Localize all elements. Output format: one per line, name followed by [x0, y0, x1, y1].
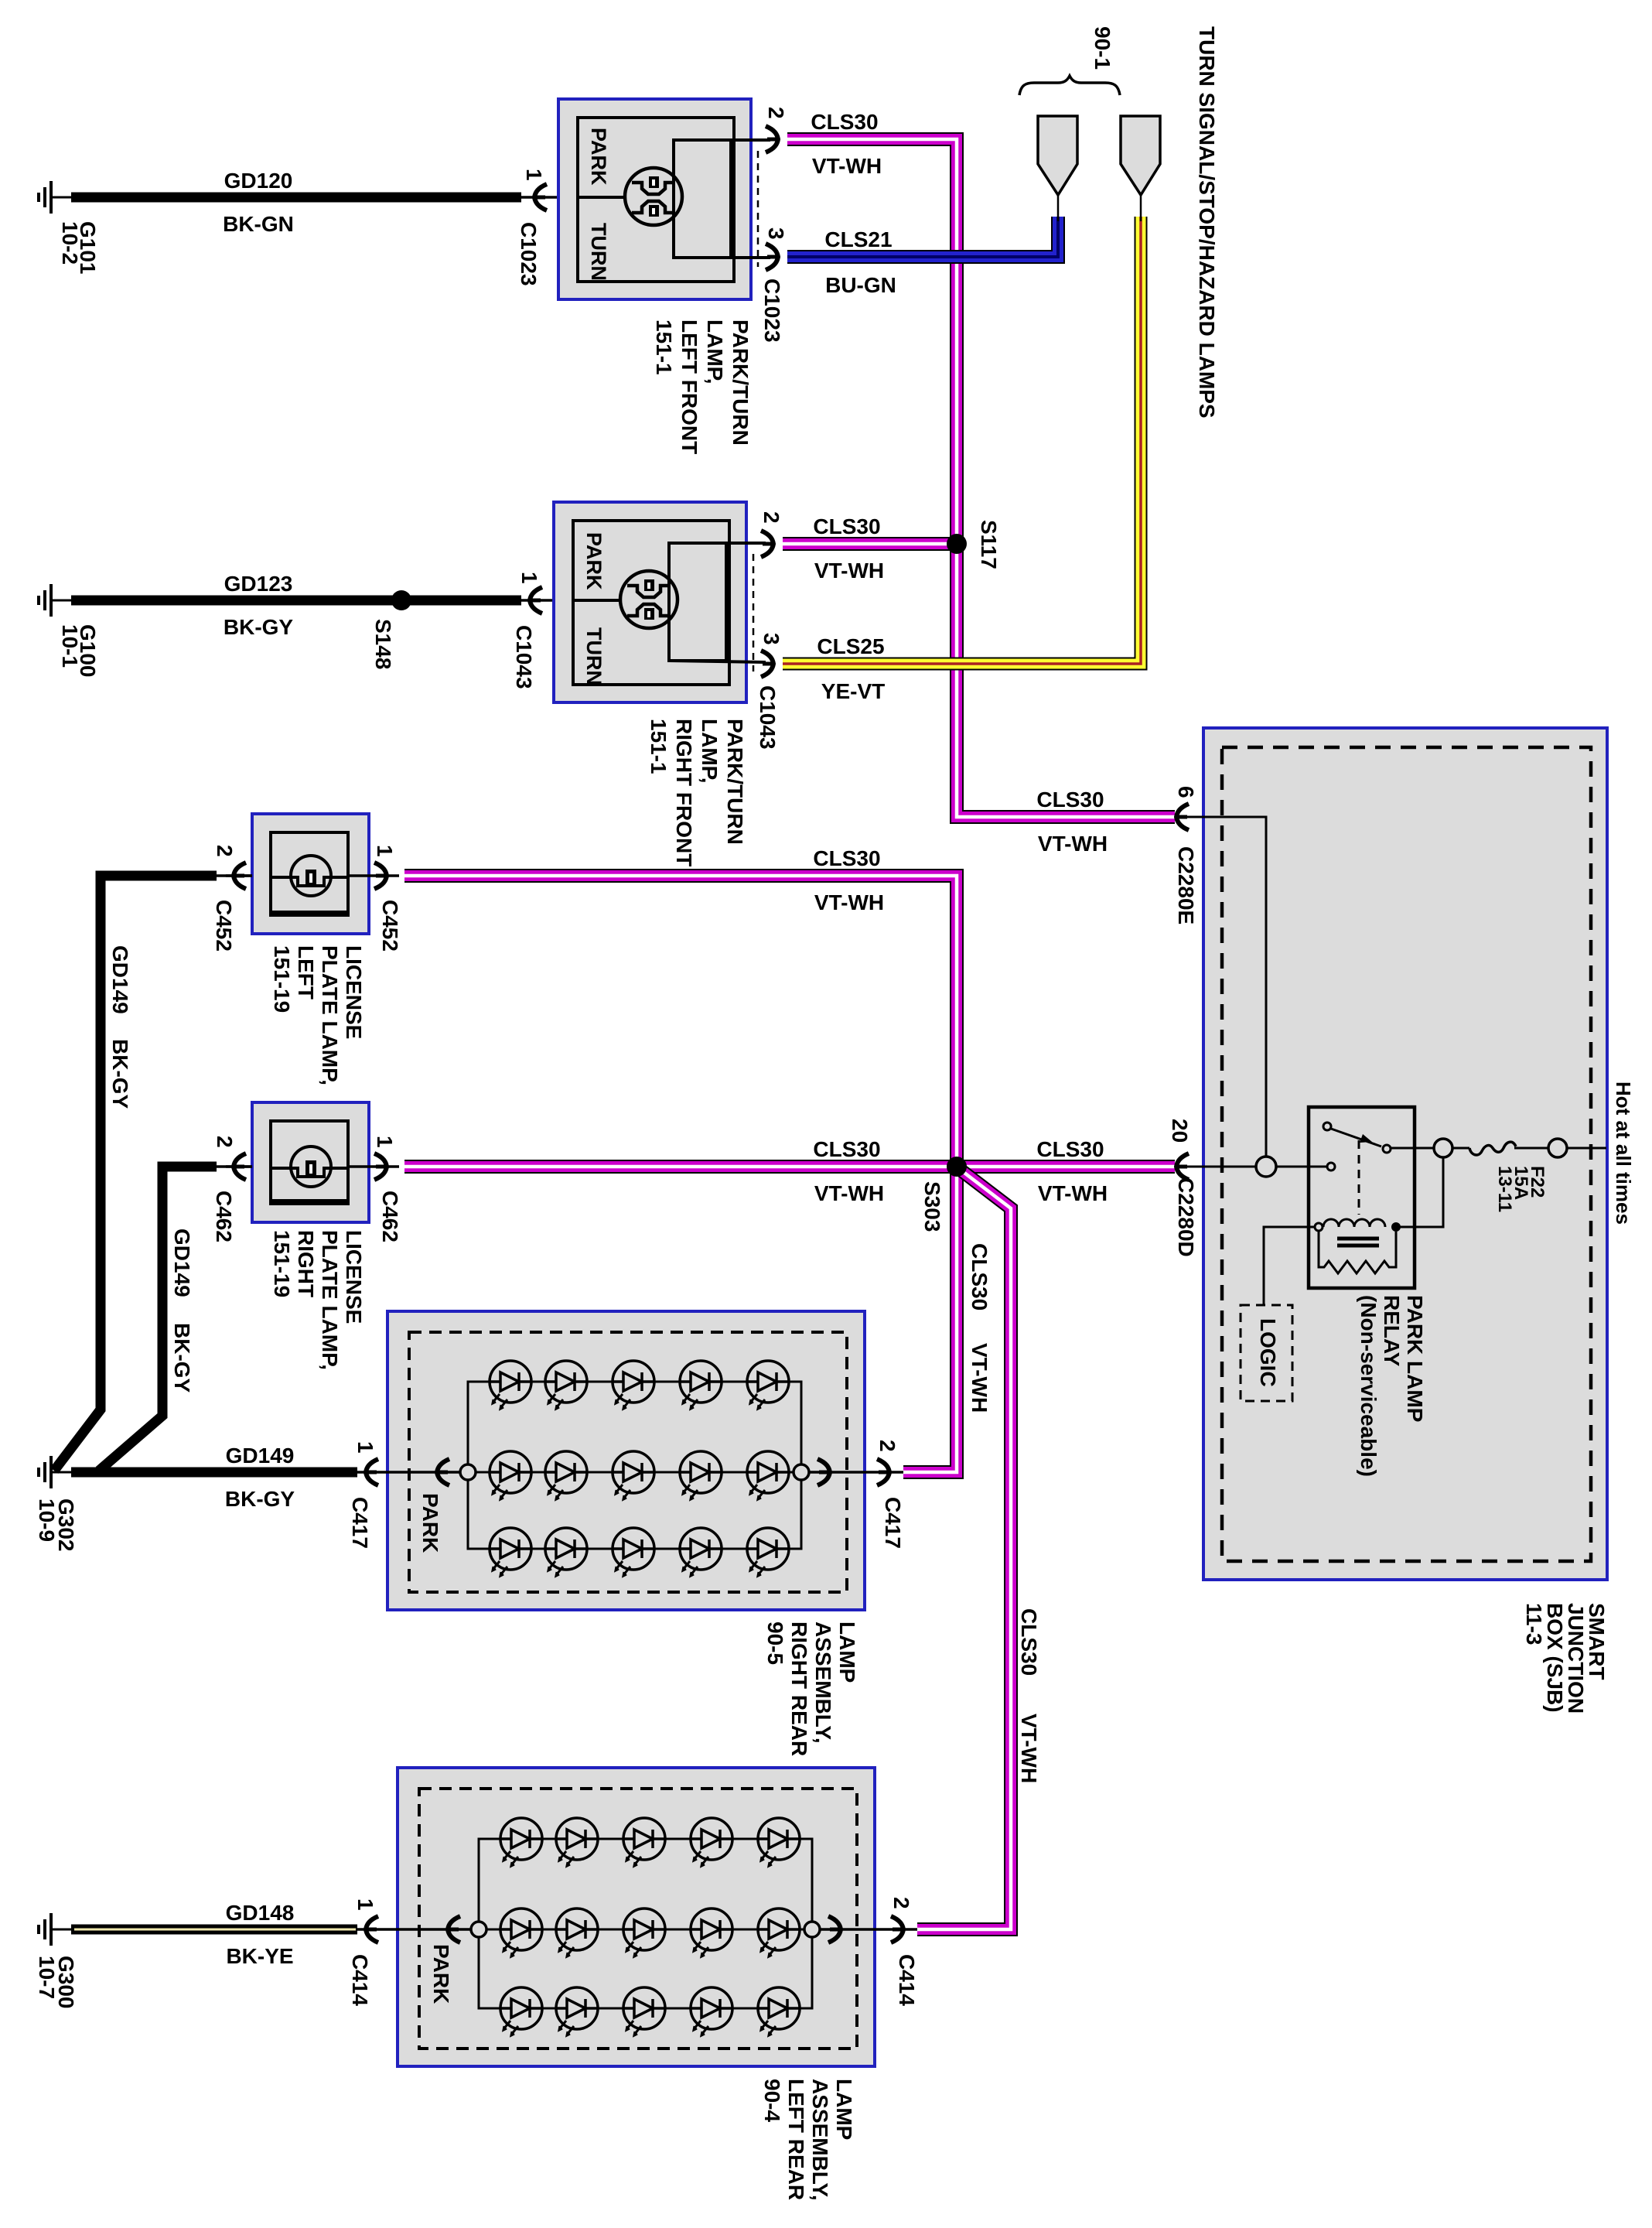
svg-text:VT-WH: VT-WH	[1038, 1181, 1108, 1205]
svg-text:PLATE LAMP,: PLATE LAMP,	[318, 945, 342, 1085]
wire CLS21 BU-GN from C1023 pin3 to turn-signal connector	[787, 217, 1058, 257]
svg-text:2: 2	[759, 511, 783, 524]
wire GD149 BK-GY from license left to ground G302	[54, 876, 217, 1471]
svg-text:151-1: 151-1	[647, 719, 671, 774]
svg-text:90-5: 90-5	[763, 1621, 787, 1665]
svg-text:CLS30: CLS30	[811, 110, 878, 134]
label LAMP ASSEMBLY, RIGHT REAR 90-5	[763, 1621, 859, 1756]
label VT-WH (S303 to C414 drop)	[1017, 1714, 1041, 1783]
svg-text:10-9: 10-9	[35, 1498, 59, 1542]
label G302 10-9	[54, 1498, 78, 1552]
label C452 (pin2)	[212, 900, 236, 952]
fuse F22 15A element	[1452, 1147, 1469, 1150]
label PARK/TURN LAMP, RIGHT FRONT 151-1	[647, 719, 747, 866]
brace grouping connectors 90-1	[1019, 76, 1120, 95]
svg-text:S117: S117	[977, 520, 1001, 569]
wire fuse to Hot at all times	[1567, 1147, 1606, 1150]
relay coil left pin	[1315, 1223, 1323, 1231]
label C2280E	[1174, 846, 1198, 924]
connector C1023 pin 3 arrow	[766, 244, 778, 270]
label PARK LAMP RELAY (Non-serviceable)	[1357, 1295, 1427, 1477]
svg-text:VT-WH: VT-WH	[814, 559, 884, 583]
svg-text:LEFT FRONT: LEFT FRONT	[678, 320, 701, 454]
svg-text:6: 6	[1174, 786, 1198, 798]
wire inside SJB from pin6 to relay junction	[1186, 817, 1266, 1157]
svg-text:CLS30: CLS30	[1036, 788, 1104, 812]
svg-text:11-3: 11-3	[1522, 1603, 1546, 1645]
label LICENSE PLATE LAMP, RIGHT 151-19	[270, 1230, 366, 1370]
svg-text:10-7: 10-7	[35, 1956, 59, 1999]
connector C417 pin 2 arrow	[847, 1471, 903, 1474]
LOGIC dashed box	[1241, 1305, 1292, 1401]
svg-text:RIGHT FRONT: RIGHT FRONT	[672, 719, 696, 866]
internal connector arrows right rear	[409, 1471, 460, 1474]
bus junction circles left rear	[471, 1922, 486, 1937]
LED array right rear	[490, 1361, 531, 1409]
svg-text:1: 1	[373, 1136, 397, 1148]
svg-text:TURN: TURN	[587, 223, 610, 281]
label 90-1	[1091, 26, 1114, 70]
svg-text:VT-WH: VT-WH	[814, 890, 884, 914]
connector C1023 pin 1 arrow	[521, 196, 578, 199]
wire GD149 BK-GY to C417	[71, 1468, 357, 1478]
svg-text:LAMP: LAMP	[832, 2079, 856, 2140]
svg-text:LAMP: LAMP	[835, 1621, 859, 1683]
svg-text:2: 2	[213, 845, 237, 857]
svg-text:VT-WH: VT-WH	[814, 1181, 884, 1205]
svg-text:RELAY: RELAY	[1380, 1295, 1404, 1367]
label C1023 (pin3)	[760, 278, 784, 343]
label TURN (lamp2)	[582, 627, 606, 685]
wire CLS30 VT-WH license lamp left row to S303 and SJB C2280D pin20	[404, 876, 1175, 1167]
svg-text:PARK/TURN: PARK/TURN	[729, 320, 753, 446]
label C452 (pin1)	[378, 900, 402, 952]
svg-text:PARK LAMP: PARK LAMP	[1403, 1295, 1427, 1422]
bulb license right	[271, 1167, 291, 1170]
svg-text:VT-WH: VT-WH	[1017, 1714, 1041, 1783]
label C462 (pin1)	[378, 1191, 402, 1242]
label pin 2 of C414	[889, 1897, 913, 1909]
svg-text:10-2: 10-2	[58, 221, 82, 265]
wire CLS25 YE-VT from C1043 pin3 to turn-signal connector	[783, 217, 1141, 664]
svg-text:C462: C462	[212, 1191, 236, 1242]
lamp2 internal socket + pin lines	[669, 543, 726, 661]
SJB outer box	[1203, 728, 1607, 1580]
svg-text:PARK: PARK	[429, 1944, 453, 2004]
svg-text:CLS21: CLS21	[824, 227, 892, 251]
svg-text:RIGHT: RIGHT	[294, 1230, 318, 1297]
label TURN (lamp1)	[587, 223, 610, 281]
svg-text:1: 1	[353, 1441, 377, 1454]
svg-text:C452: C452	[212, 900, 236, 952]
svg-text:TURN: TURN	[582, 627, 606, 685]
label S117	[977, 520, 1001, 569]
svg-text:C1043: C1043	[512, 625, 536, 689]
svg-text:C452: C452	[378, 900, 402, 952]
label pin 1 of C452	[373, 845, 397, 857]
relay suppression resistor	[1319, 1231, 1396, 1273]
svg-text:2: 2	[875, 1440, 899, 1452]
svg-text:(Non-serviceable): (Non-serviceable)	[1357, 1295, 1381, 1477]
svg-text:LEFT: LEFT	[294, 945, 318, 1000]
svg-text:2: 2	[764, 107, 788, 119]
label CLS30 (S303 to C414 drop)	[1017, 1608, 1041, 1676]
svg-text:VT-WH: VT-WH	[812, 154, 882, 178]
label C462 (pin2)	[212, 1191, 236, 1242]
svg-text:PARK: PARK	[587, 128, 610, 186]
svg-text:C414: C414	[895, 1954, 919, 2006]
label LAMP ASSEMBLY, LEFT REAR 90-4	[760, 2079, 856, 2201]
svg-text:LICENSE: LICENSE	[342, 945, 366, 1039]
svg-text:VT-WH: VT-WH	[968, 1343, 992, 1413]
svg-text:BU-GN: BU-GN	[825, 273, 896, 297]
svg-text:PLATE LAMP,: PLATE LAMP,	[318, 1230, 342, 1370]
label SMART JUNCTION BOX (SJB) 11-3	[1522, 1603, 1609, 1714]
lamp assembly LEFT REAR box	[398, 1768, 875, 2066]
label LICENSE PLATE LAMP, LEFT 151-19	[270, 945, 366, 1085]
label S303	[920, 1181, 944, 1232]
svg-text:LAMP,: LAMP,	[703, 320, 727, 384]
relay switch pivot contact	[1323, 1123, 1331, 1130]
ground G302	[39, 1456, 71, 1488]
wire GD123 BK-GY	[71, 596, 521, 606]
connector C462 pin 1 arrow	[348, 1165, 399, 1168]
bus junction circles right rear	[460, 1464, 476, 1480]
wire CLS30 VT-WH from C1023 pin2 down to SJB C2280E pin6	[787, 139, 1175, 817]
splice S303	[947, 1157, 967, 1177]
label TURN SIGNAL/STOP/HAZARD LAMPS	[1195, 26, 1219, 419]
label G101 10-2	[76, 221, 100, 275]
label pin 2 of C417	[875, 1440, 899, 1452]
svg-text:S303: S303	[920, 1181, 944, 1232]
lamp PARK/TURN LAMP RIGHT FRONT box	[554, 502, 746, 702]
label BK-GY (left license drop)	[108, 1039, 132, 1109]
svg-text:ASSEMBLY,: ASSEMBLY,	[811, 1621, 835, 1744]
svg-text:ASSEMBLY,: ASSEMBLY,	[808, 2079, 832, 2201]
wire CLS30 VT-WH license lamp right row to splice S303	[404, 1160, 957, 1174]
wire fused feed down to relay coil	[1400, 1157, 1443, 1227]
splice S117	[947, 534, 967, 554]
label G300 10-7	[54, 1956, 78, 2009]
connector C1043 dashed line	[753, 554, 755, 671]
svg-text:BK-GN: BK-GN	[223, 212, 294, 236]
svg-text:BK-GY: BK-GY	[108, 1039, 132, 1109]
label S148	[371, 619, 395, 669]
label pin 3 of C1043	[759, 633, 783, 645]
label pin 6 of C2280E	[1174, 786, 1198, 798]
svg-text:VT-WH: VT-WH	[1038, 832, 1108, 856]
label pin 1 of C417	[353, 1441, 377, 1454]
label pin 2 of C452	[213, 845, 237, 857]
lamp LICENSE PLATE LAMP LEFT box	[252, 814, 369, 934]
label PARK/TURN LAMP, LEFT FRONT 151-1	[652, 320, 753, 454]
ground G300	[39, 1913, 71, 1946]
wire CLS30 VT-WH from S303 diagonal down to C414 pin2	[917, 1170, 1011, 1929]
internal connector arrows left rear	[420, 1928, 471, 1931]
svg-text:C1043: C1043	[756, 685, 780, 750]
svg-text:GD149: GD149	[108, 945, 132, 1014]
label BK-GY (right license drop)	[170, 1323, 194, 1393]
connector C414 pin 1 arrow	[357, 1928, 420, 1931]
lamp assembly RIGHT REAR box	[387, 1311, 865, 1610]
label Hot at all times	[1612, 1082, 1635, 1225]
relay coil	[1323, 1219, 1385, 1227]
wire CLS30 VT-WH from S303 down to C417 pin2	[903, 1167, 957, 1472]
svg-text:PARK: PARK	[582, 532, 606, 590]
svg-text:YE-VT: YE-VT	[821, 679, 885, 703]
label C417 (pin1)	[348, 1497, 372, 1549]
svg-text:CLS30: CLS30	[813, 514, 880, 538]
svg-text:3: 3	[759, 633, 783, 645]
label C1043 (pin1)	[512, 625, 536, 689]
connector C1043 pin 3 arrow	[761, 651, 773, 677]
label PARK (lamp2)	[582, 532, 606, 590]
lamp1 internal socket + pin lines	[674, 140, 731, 258]
svg-text:RIGHT REAR: RIGHT REAR	[787, 1621, 811, 1756]
connector C452 pin 1 arrow	[348, 874, 399, 877]
svg-text:90-4: 90-4	[760, 2079, 784, 2122]
svg-text:BK-GY: BK-GY	[225, 1487, 295, 1511]
svg-text:LAMP,: LAMP,	[698, 719, 722, 784]
wire CLS30 VT-WH from C1043 pin2 to splice S117	[783, 537, 957, 551]
connector symbol to turn signal lamps (left)	[1038, 116, 1077, 195]
svg-text:1: 1	[373, 845, 397, 857]
svg-text:90-1: 90-1	[1091, 26, 1114, 70]
label PARK (right rear)	[418, 1493, 442, 1553]
svg-text:PARK: PARK	[418, 1493, 442, 1553]
svg-text:151-19: 151-19	[270, 1230, 294, 1297]
SJB fuse pin circle (left)	[1434, 1139, 1452, 1157]
SJB inner dashed box	[1222, 747, 1591, 1561]
label GD149 (right license drop)	[170, 1228, 194, 1297]
connector C2280D pin 20 arrow	[1176, 1153, 1189, 1180]
relay coil core bars	[1337, 1237, 1379, 1241]
svg-text:BK-YE: BK-YE	[226, 1944, 293, 1968]
svg-text:BK-GY: BK-GY	[224, 615, 294, 639]
label G100 10-1	[76, 624, 100, 678]
relay PARK LAMP RELAY box	[1309, 1107, 1415, 1288]
svg-text:C1023: C1023	[760, 278, 784, 343]
svg-text:CLS30: CLS30	[1017, 1608, 1041, 1676]
connector C414 pin 2 arrow	[858, 1928, 917, 1931]
label pin 1 of C1043	[517, 572, 541, 584]
svg-text:LICENSE: LICENSE	[342, 1230, 366, 1324]
relay switch common contact	[1327, 1163, 1335, 1170]
ground G101	[39, 181, 71, 214]
svg-text:C462: C462	[378, 1191, 402, 1242]
wire relay coil to LOGIC	[1264, 1227, 1315, 1305]
relay switch closed contact	[1383, 1145, 1391, 1153]
relay armature dashed link	[1358, 1140, 1360, 1215]
svg-text:CLS30: CLS30	[813, 1137, 880, 1161]
svg-text:1: 1	[353, 1898, 377, 1911]
svg-text:1: 1	[517, 572, 541, 584]
ground G100	[39, 584, 71, 617]
connector C452 pin 2 arrow	[226, 874, 252, 877]
connector C2280E pin 6 arrow	[1176, 804, 1189, 830]
bulb license left	[271, 876, 291, 879]
svg-text:10-1: 10-1	[58, 624, 82, 668]
lamp LICENSE PLATE LAMP RIGHT box	[252, 1102, 369, 1222]
bulb dual filament (lamp1)	[625, 168, 682, 225]
svg-text:S148: S148	[371, 619, 395, 669]
label GD149 (left license drop)	[108, 945, 132, 1014]
svg-text:CLS30: CLS30	[813, 846, 880, 870]
label LOGIC	[1256, 1318, 1280, 1387]
label pin 2 of C1023	[764, 107, 788, 119]
svg-text:20: 20	[1168, 1119, 1192, 1143]
label C1023 (pin1)	[517, 222, 541, 286]
svg-text:C2280D: C2280D	[1174, 1177, 1198, 1257]
label C417 (pin2)	[881, 1497, 905, 1549]
svg-text:C414: C414	[348, 1954, 372, 2006]
label CLS30 (S303 to C417 drop)	[968, 1243, 992, 1310]
label pin 1 of C462	[373, 1136, 397, 1148]
wire junction circle to relay contact	[1276, 1166, 1327, 1168]
label pin 2 of C1043	[759, 511, 783, 524]
svg-text:PARK/TURN: PARK/TURN	[723, 719, 747, 845]
bulb dual filament (lamp2)	[620, 571, 678, 628]
connector C1043 pin 2 arrow	[761, 531, 773, 557]
wire inside SJB from pin20 to relay junction	[1186, 1166, 1256, 1168]
svg-text:Hot at all times: Hot at all times	[1612, 1082, 1635, 1225]
SJB junction pin circle	[1256, 1157, 1276, 1177]
label pin 20 of C2280D	[1168, 1119, 1192, 1143]
svg-text:C2280E: C2280E	[1174, 846, 1198, 924]
splice S148	[391, 590, 411, 610]
SJB fuse pin circle (right)	[1548, 1139, 1567, 1157]
svg-text:2: 2	[889, 1897, 913, 1909]
wire GD148 BK-YE to C414	[71, 1925, 357, 1935]
wire GD149 BK-GY from license right to ground G302	[99, 1167, 217, 1471]
label F22 15A 13-11	[1494, 1166, 1548, 1212]
connector C1043 pin 1 arrow	[521, 599, 573, 602]
label pin 1 of C414	[353, 1898, 377, 1911]
svg-text:151-1: 151-1	[652, 320, 676, 375]
svg-text:GD149: GD149	[226, 1444, 295, 1468]
connector C417 pin 1 arrow	[357, 1471, 409, 1474]
svg-text:13-11: 13-11	[1494, 1166, 1515, 1212]
connector C1023 pin 2 arrow	[766, 126, 778, 152]
connector C1023 dashed line	[757, 151, 759, 267]
connector C462 pin 2 arrow	[226, 1165, 252, 1168]
svg-text:3: 3	[764, 227, 788, 240]
label C414 (pin1)	[348, 1954, 372, 2006]
svg-text:C1023: C1023	[517, 222, 541, 286]
label pin 1 of C1023	[522, 169, 546, 181]
svg-text:BK-GY: BK-GY	[170, 1323, 194, 1393]
svg-text:CLS25: CLS25	[817, 634, 884, 658]
label VT-WH (S303 to C417 drop)	[968, 1343, 992, 1413]
svg-text:CLS30: CLS30	[1036, 1137, 1104, 1161]
wire relay contact to fuse pin	[1391, 1147, 1435, 1150]
svg-text:2: 2	[213, 1136, 237, 1148]
svg-text:TURN SIGNAL/STOP/HAZARD LAMPS: TURN SIGNAL/STOP/HAZARD LAMPS	[1195, 26, 1219, 419]
svg-text:CLS30: CLS30	[968, 1243, 992, 1310]
lamp PARK/TURN LAMP LEFT FRONT box	[558, 99, 751, 299]
svg-text:GD120: GD120	[224, 169, 293, 193]
relay switch arm	[1331, 1129, 1381, 1146]
label C1043 (pin3)	[756, 685, 780, 750]
relay coil right pin dot	[1391, 1222, 1401, 1232]
svg-text:151-19: 151-19	[270, 945, 294, 1013]
LED array left rear	[500, 1818, 542, 1866]
label pin 2 of C462	[213, 1136, 237, 1148]
svg-text:C417: C417	[348, 1497, 372, 1549]
svg-text:LEFT REAR: LEFT REAR	[784, 2079, 808, 2200]
label PARK (left rear)	[429, 1944, 453, 2004]
label PARK (lamp1)	[587, 128, 610, 186]
svg-text:GD123: GD123	[224, 572, 293, 596]
svg-text:LOGIC: LOGIC	[1256, 1318, 1280, 1387]
label pin 3 of C1023	[764, 227, 788, 240]
svg-text:GD149: GD149	[170, 1228, 194, 1297]
svg-text:C417: C417	[881, 1497, 905, 1549]
label C2280D	[1174, 1177, 1198, 1257]
wire GD120 BK-GN	[71, 193, 521, 203]
connector symbol to turn signal lamps (right)	[1121, 116, 1160, 195]
svg-text:1: 1	[522, 169, 546, 181]
svg-text:GD148: GD148	[226, 1901, 295, 1925]
label C414 (pin2)	[895, 1954, 919, 2006]
